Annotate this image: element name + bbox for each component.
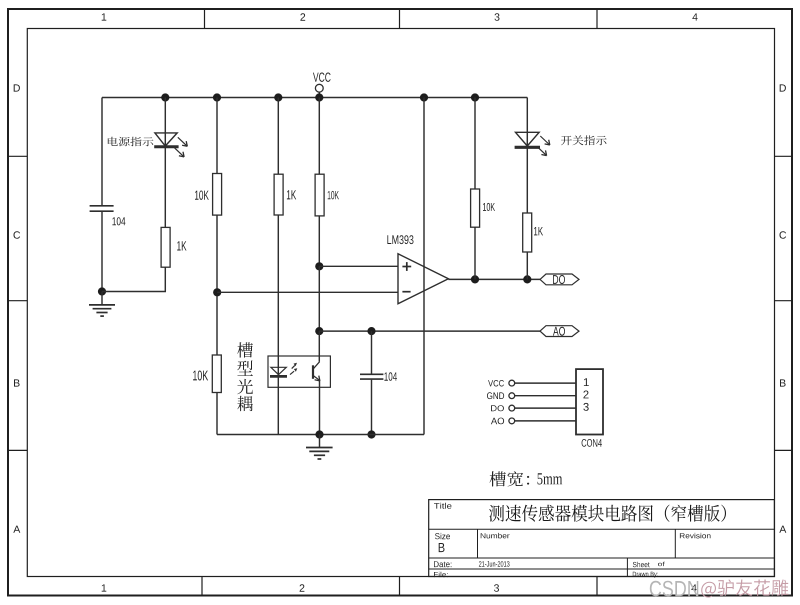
label R5 10K [193,371,208,381]
label CON4 pin AO [491,418,504,425]
wire C2 to bottom rail [371,380,373,435]
junction AO tap [315,327,323,335]
resistor R7 1K [523,213,532,252]
junction rail-R3 [274,93,282,101]
label power indicator 电源指示 [108,137,154,146]
title block label Number [481,533,510,539]
wire junction to AO net [318,266,320,331]
op-amp U1 LM393 [398,254,448,304]
optocoupler U2 LED [271,367,286,374]
label C1 104 [112,217,125,225]
label R6 10K [483,203,495,211]
ground GND1 [101,292,103,305]
title block label of [658,562,665,567]
label U1 LM393 [387,235,413,244]
label R1 1K [177,241,186,250]
optocoupler U2 light arrow [290,371,294,374]
watermark @驴友花雕 [701,580,788,598]
junction inverting input [213,288,221,296]
pin number 1 [584,378,589,386]
junction rail-R4 VCC [315,93,323,101]
title block label Drawn By [633,572,658,578]
label R2 10K [195,191,209,200]
junction AO-C2 [367,327,375,335]
label optocoupler 槽 [237,342,253,357]
label slot width 槽宽： [490,471,530,486]
node VCC terminal [315,84,323,92]
wire R1 to ground net [164,267,166,291]
wire CON4 AO [515,420,576,422]
pin number 3 [583,403,588,411]
pin CON4 VCC terminal [509,380,515,386]
junction rail-R2 [213,93,221,101]
wire AO net [319,330,540,332]
wire R3 to optocoupler LED [277,215,279,435]
pin CON4 DO terminal [509,405,515,411]
resistor R2 10K [213,174,222,216]
led LED2 switch indicator [526,132,528,213]
wire CON4 VCC [515,382,576,384]
label optocoupler 型 [237,361,253,376]
wire rail to R6 [474,98,476,190]
wire C1 to ground net [101,212,103,292]
junction output-R7 [523,275,531,283]
pin CON4 AO terminal [509,418,515,424]
wire CON4 GND [515,395,576,397]
optocoupler U2 phototransistor [312,365,314,379]
label DO [553,275,565,284]
wire VCC rail to C1 [101,98,103,206]
pin CON4 GND terminal [509,393,515,399]
junction noninverting input [315,262,323,270]
op-amp U1 plus sign [402,266,411,268]
resistor R3 1K [274,174,283,215]
title block size B [439,543,445,552]
label R7 1K [534,227,543,235]
label CON4 pin DO [491,405,504,411]
resistor R1 1K [161,227,170,267]
junction rail-R6 [471,93,479,101]
title block label File [434,572,448,578]
wire rail to LED1 [164,98,166,228]
led LED2 light arrows [540,136,550,145]
optocoupler U2 box [268,356,330,387]
wire rail to R3 [277,98,279,175]
label CON4 pin VCC [488,380,504,387]
label CON4 pin GND [487,392,504,399]
label CON4 [582,439,602,447]
title block label Date [434,561,452,567]
led LED1 light arrows [178,137,188,146]
wire U1 output [448,278,540,280]
wire rail to R2 [216,98,218,174]
wire U1 power [423,98,425,435]
wire rail corner to LED2 [526,98,528,133]
wire rail to R4 [318,98,320,175]
op-amp U1 minus sign [402,291,410,293]
wire AO collector [318,331,320,362]
capacitor C1 plates [90,205,114,207]
title block grid [429,500,775,577]
connector CON4 body [576,369,603,434]
label optocoupler 耦 [237,396,253,411]
label R4 10K [328,191,339,200]
port DO flag [540,274,579,285]
junction ground-left [98,287,106,295]
title block label Revision [680,533,711,539]
wire bottom rail [217,434,424,436]
watermark CSDN [650,581,699,597]
label slot width 5mm [538,473,563,484]
label C2 104 [384,372,397,381]
wire R2 to R5 [216,215,218,355]
ground GND2 [319,435,321,448]
wire R6 to DO net [474,227,476,279]
label optocoupler 光 [237,379,253,394]
title text 测速传感器模块电路图（窄槽版） [489,505,726,522]
wire AO to C2 [371,331,373,374]
wire R7 to DO net [526,252,528,279]
label switch indicator 开关指示 [561,135,607,145]
wire emitter to bottom rail [319,380,321,434]
title block label Size [435,533,450,539]
capacitor C2 plates [360,373,383,375]
wire R5 to bottom rail [216,393,218,435]
wire top VCC rail [102,97,527,99]
junction emitter-ground [315,430,323,438]
title block label Title [434,503,452,509]
resistor R6 10K [471,189,480,227]
label VCC [313,73,331,82]
wire ground segment to R1 [102,291,166,293]
label R3 1K [287,190,296,199]
wire R4 to junctions [318,216,320,266]
wire noninverting input [319,265,398,267]
port AO flag [540,326,579,337]
resistor R4 10K [315,174,324,216]
wire inverting input [217,291,398,293]
led LED1 power indicator [155,133,177,146]
title block label Sheet [633,562,650,568]
title block date 21-Jun-2013 [479,561,510,567]
junction rail-LED1 [161,93,169,101]
label AO [553,327,565,336]
pin number 2 [583,391,588,399]
junction output-R6 [471,275,479,283]
resistor R5 10K [212,355,221,393]
junction C2-bottom rail [367,430,375,438]
wire CON4 DO [515,407,576,409]
junction rail-U1 power [420,93,428,101]
